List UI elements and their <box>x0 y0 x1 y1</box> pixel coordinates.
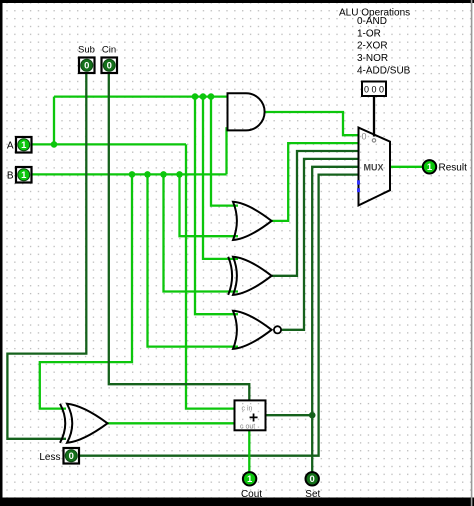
svg-text:Sub: Sub <box>78 45 95 56</box>
svg-text:0: 0 <box>69 451 74 462</box>
junction B row x163.5 <box>160 171 167 178</box>
svg-text:4-ADD/SUB: 4-ADD/SUB <box>357 66 411 77</box>
svg-text:Cin: Cin <box>102 45 116 56</box>
wire B drop to bottom XOR input 1 <box>40 174 132 408</box>
wire A drop to XOR input 1 <box>203 97 238 259</box>
svg-text:1: 1 <box>21 170 27 181</box>
wire B drop to NOR input 2 <box>148 174 239 346</box>
junction B row x132 <box>129 171 136 178</box>
junction top rail x211 <box>208 93 215 100</box>
junction top rail x203 <box>200 93 207 100</box>
xor-gate X2 (B XOR Sub) <box>67 404 108 443</box>
svg-text:B: B <box>7 171 14 182</box>
wire select bus from constant to MUX <box>373 96 375 137</box>
junction B row x179.5 <box>176 171 183 178</box>
wire MUX output to Result pin <box>390 166 423 168</box>
border frame top <box>0 0 474 3</box>
input pin Sub <box>79 58 95 74</box>
wire Sub pin to bottom XOR input 2 (net Sub) <box>7 72 86 439</box>
wire B pin to AND riser (net B) <box>31 173 227 175</box>
svg-text:0: 0 <box>107 61 112 72</box>
wire sum branch down to Set pin <box>311 415 313 472</box>
svg-text:0: 0 <box>362 132 367 142</box>
junction top rail x195 <box>192 93 199 100</box>
border frame left <box>0 0 3 506</box>
input pin A <box>16 137 32 153</box>
nor-gate N1 (A NOR B) <box>233 311 272 349</box>
svg-text:MUX: MUX <box>364 163 384 173</box>
input pin Cin <box>102 58 118 74</box>
wire B drop to OR input 2 <box>180 174 239 236</box>
wire NOR output to MUX input 3 <box>281 159 359 330</box>
mux floating input 6 stub <box>357 180 360 184</box>
svg-text:0: 0 <box>84 61 89 72</box>
wire A descend to adder input A <box>186 144 235 408</box>
wire AND output to MUX input 0 <box>265 112 359 135</box>
svg-text:1: 1 <box>21 140 27 151</box>
mux U1 (8-to-1 multiplexer) <box>359 128 391 206</box>
output pin Result <box>423 160 436 173</box>
wire adder carry-out to Cout pin <box>248 430 250 472</box>
wire B riser to AND input 2 <box>225 127 227 174</box>
wire B drop to XOR input 2 <box>164 174 239 291</box>
input pin Less <box>64 448 80 464</box>
xor-gate X1 (A XOR B) <box>233 257 272 295</box>
wire A top rail to AND input 1 <box>54 95 227 97</box>
junction B row x147.5 <box>144 171 151 178</box>
border frame right <box>471 0 473 506</box>
svg-text:A: A <box>7 141 14 152</box>
wire OR output to MUX input 1 <box>272 143 359 221</box>
svg-text:c out: c out <box>240 424 255 431</box>
wire Less pin to MUX input 5 (net Less) <box>79 175 359 456</box>
svg-text:0 0 0: 0 0 0 <box>364 85 384 95</box>
and-gate A1 (A AND B) <box>228 93 265 130</box>
input pin B <box>16 167 32 183</box>
svg-text:1-OR: 1-OR <box>357 28 381 39</box>
or-gate O1 (A OR B) <box>233 202 272 240</box>
svg-text:1: 1 <box>427 162 433 173</box>
mux floating input 7 stub <box>357 188 360 192</box>
svg-text:2-XOR: 2-XOR <box>357 41 388 52</box>
wire adder sum to MUX input 4 <box>266 167 359 415</box>
border frame bottom <box>0 498 474 506</box>
constant 000 select input <box>362 82 386 97</box>
wire XOR output to MUX input 2 <box>272 151 359 276</box>
svg-text:Less: Less <box>39 452 60 463</box>
adder U2 (full adder) <box>235 400 266 430</box>
wire Cin pin to adder carry-in (net Cin) <box>109 72 250 400</box>
wire A riser to top rail <box>53 97 55 145</box>
wire A drop to OR input 1 <box>211 97 238 206</box>
wire A drop to NOR input 1 <box>195 97 238 315</box>
svg-text:0-AND: 0-AND <box>357 16 387 27</box>
output pin Cout <box>243 472 256 485</box>
output pin Set <box>306 472 319 485</box>
svg-text:1: 1 <box>247 474 253 485</box>
wire bottom XOR output to adder input B <box>108 422 235 424</box>
junction A row x54 <box>51 141 58 148</box>
wire A pin to adder-descend corner (net A) <box>31 143 186 145</box>
svg-text:Result: Result <box>439 163 468 174</box>
svg-text:3-NOR: 3-NOR <box>357 53 388 64</box>
svg-text:0: 0 <box>310 474 315 485</box>
junction sum/Set branch <box>309 412 316 419</box>
